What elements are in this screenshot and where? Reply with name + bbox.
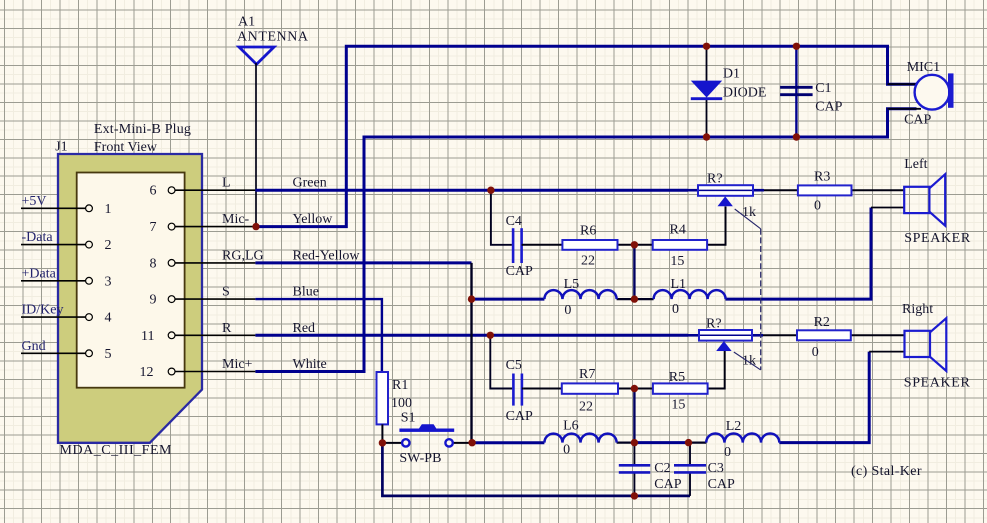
inductor L2 bbox=[706, 419, 779, 460]
wire White net: pin12 to bottom rail to MIC1 pin2 bbox=[255, 109, 916, 372]
pin 5 of J1 bbox=[21, 347, 112, 362]
wire L2 to right speaker lower pin bbox=[779, 352, 869, 443]
wire C3 bottom lead bbox=[689, 472, 691, 496]
wire SW row to L6 bbox=[472, 441, 544, 444]
svg-text:+5V: +5V bbox=[22, 194, 47, 209]
svg-text:100: 100 bbox=[391, 396, 412, 411]
svg-text:SPEAKER: SPEAKER bbox=[904, 376, 971, 391]
svg-text:R: R bbox=[222, 321, 232, 336]
svg-text:L2: L2 bbox=[726, 419, 742, 434]
svg-text:R3: R3 bbox=[814, 170, 830, 185]
svg-text:CAP: CAP bbox=[506, 409, 533, 424]
svg-text:2: 2 bbox=[105, 238, 112, 253]
svg-text:Red-Yellow: Red-Yellow bbox=[293, 248, 361, 263]
left speaker LS1 bbox=[904, 157, 971, 246]
svg-text:ANTENNA: ANTENNA bbox=[237, 30, 309, 45]
svg-text:White: White bbox=[293, 357, 327, 372]
svg-text:0: 0 bbox=[812, 345, 819, 360]
svg-text:C4: C4 bbox=[506, 214, 522, 229]
wire L6 to C2 junction bbox=[617, 442, 635, 444]
svg-text:Front View: Front View bbox=[94, 140, 158, 155]
resistor R7 bbox=[523, 367, 634, 415]
svg-text:C5: C5 bbox=[506, 358, 522, 373]
wire C2 junction to C3 junction bbox=[634, 441, 688, 444]
wire C2 top lead bbox=[633, 443, 635, 466]
junction C1 bottom bbox=[793, 133, 800, 140]
wire C2 bottom lead bbox=[633, 472, 635, 496]
svg-text:15: 15 bbox=[670, 254, 684, 269]
diode D1 bbox=[691, 46, 767, 137]
svg-text:0: 0 bbox=[814, 199, 821, 214]
pin 9 of J1 bbox=[150, 293, 256, 308]
svg-text:Yellow: Yellow bbox=[293, 212, 334, 227]
junction Green / C4 bbox=[487, 187, 494, 194]
junction C3 / L2 bbox=[685, 439, 692, 446]
pin 6 of J1 bbox=[150, 184, 256, 199]
svg-text:Mic-: Mic- bbox=[222, 212, 250, 227]
wire L1 to left speaker lower pin bbox=[726, 208, 872, 300]
svg-text:Red: Red bbox=[293, 321, 316, 336]
wire C3 junction to L2 bbox=[689, 442, 707, 444]
potentiometer R? (right channel) bbox=[688, 317, 797, 369]
microphone MIC1 bbox=[888, 60, 954, 128]
capacitor C3 bbox=[674, 461, 735, 492]
svg-text:9: 9 bbox=[150, 293, 157, 308]
switch S1 SW-PB bbox=[382, 411, 472, 467]
svg-text:R7: R7 bbox=[579, 367, 595, 382]
wire RG,LG net vertical down to switch row bbox=[470, 263, 472, 443]
svg-text:CAP: CAP bbox=[815, 100, 842, 115]
svg-text:C3: C3 bbox=[708, 461, 724, 476]
svg-text:8: 8 bbox=[150, 256, 157, 271]
svg-text:S: S bbox=[222, 285, 230, 300]
pin 4 of J1 bbox=[21, 311, 112, 326]
pin 12 of J1 bbox=[140, 365, 256, 380]
svg-text:0: 0 bbox=[724, 445, 731, 460]
svg-text:-Data: -Data bbox=[22, 230, 54, 245]
svg-text:Ext-Mini-B Plug: Ext-Mini-B Plug bbox=[94, 122, 191, 137]
junction R6/R4 node bbox=[631, 241, 638, 248]
svg-text:CAP: CAP bbox=[506, 264, 533, 279]
svg-text:S1: S1 bbox=[401, 411, 416, 426]
svg-text:22: 22 bbox=[579, 400, 593, 415]
svg-text:ID/Key: ID/Key bbox=[22, 303, 64, 318]
pin 2 of J1 bbox=[21, 238, 112, 253]
svg-text:R5: R5 bbox=[669, 370, 685, 385]
svg-text:0: 0 bbox=[672, 302, 679, 317]
svg-text:(c) Stal-Ker: (c) Stal-Ker bbox=[851, 464, 922, 479]
resistor R1 bbox=[377, 372, 413, 443]
wire C3 top lead bbox=[689, 443, 691, 466]
svg-text:5: 5 bbox=[105, 347, 112, 362]
svg-text:Left: Left bbox=[904, 157, 927, 172]
dashed gang link between potentiometers bbox=[734, 209, 761, 370]
svg-text:CAP: CAP bbox=[708, 477, 735, 492]
svg-text:J1: J1 bbox=[55, 140, 67, 155]
svg-text:CAP: CAP bbox=[654, 477, 681, 492]
svg-text:SPEAKER: SPEAKER bbox=[904, 231, 971, 246]
capacitor C2 bbox=[619, 461, 682, 492]
resistor R4 bbox=[634, 207, 725, 270]
wire node to L5 bbox=[472, 298, 545, 301]
svg-text:L5: L5 bbox=[564, 277, 580, 292]
junction R7/R5 node bbox=[631, 385, 638, 392]
junction antenna / Mic- wire bbox=[252, 223, 259, 230]
svg-text:Blue: Blue bbox=[293, 285, 319, 300]
svg-text:R4: R4 bbox=[670, 223, 686, 238]
svg-text:R?: R? bbox=[706, 317, 722, 332]
svg-text:R2: R2 bbox=[814, 315, 830, 330]
right speaker LS2 bbox=[902, 302, 970, 391]
wire C4 feed from Green net bbox=[491, 190, 512, 245]
svg-text:1: 1 bbox=[105, 202, 112, 217]
svg-text:Mic+: Mic+ bbox=[222, 357, 253, 372]
svg-text:1k: 1k bbox=[742, 354, 756, 369]
junction D1 bottom bbox=[703, 133, 710, 140]
svg-text:R6: R6 bbox=[580, 224, 596, 239]
svg-text:RG,LG: RG,LG bbox=[222, 248, 264, 263]
resistor R3 bbox=[798, 170, 904, 214]
svg-text:L: L bbox=[222, 176, 231, 191]
svg-text:0: 0 bbox=[563, 443, 570, 458]
svg-text:+Data: +Data bbox=[22, 266, 57, 281]
junction RG,LG / L5 row bbox=[468, 295, 475, 302]
antenna A1 bbox=[239, 47, 274, 64]
svg-text:4: 4 bbox=[105, 311, 112, 326]
potentiometer R? (left channel) bbox=[688, 172, 798, 221]
svg-text:L6: L6 bbox=[563, 419, 579, 434]
svg-text:3: 3 bbox=[105, 274, 112, 289]
wire L5 to L1 bbox=[617, 298, 654, 300]
svg-text:SW-PB: SW-PB bbox=[399, 451, 441, 466]
svg-text:D1: D1 bbox=[723, 67, 740, 82]
svg-text:MIC1: MIC1 bbox=[907, 60, 940, 75]
junction D1 top bbox=[703, 43, 710, 50]
inductor L6 bbox=[544, 419, 616, 458]
pin 11 of J1 bbox=[141, 329, 255, 344]
junction L6 / C2 bbox=[631, 439, 638, 446]
antenna A1 pin bbox=[255, 63, 257, 227]
svg-text:Right: Right bbox=[902, 302, 933, 317]
wire Red net: pin11 to pot R? left bbox=[255, 334, 688, 337]
svg-text:Gnd: Gnd bbox=[22, 339, 46, 354]
svg-text:1k: 1k bbox=[742, 205, 756, 220]
svg-text:C2: C2 bbox=[654, 461, 670, 476]
pin 1 of J1 bbox=[21, 202, 112, 217]
capacitor C4 bbox=[506, 214, 533, 279]
svg-text:C1: C1 bbox=[815, 81, 831, 96]
junction C1 top bbox=[793, 43, 800, 50]
wire Green net: pin6 to pot R? left bbox=[255, 189, 688, 192]
wire RG,LG net horizontal bbox=[255, 261, 471, 264]
wire junction column R6/R4 to L5/L1 bbox=[633, 245, 635, 299]
junction L5/L1 node bbox=[631, 295, 638, 302]
wire bottom ground run bbox=[382, 443, 690, 496]
capacitor C1 bbox=[780, 46, 843, 137]
pin 8 of J1 bbox=[150, 256, 256, 271]
inductor L1 bbox=[654, 277, 726, 317]
connector J1 body (Ext-Mini-B plug) bbox=[58, 154, 202, 443]
svg-text:0: 0 bbox=[564, 303, 571, 318]
resistor R6 bbox=[523, 224, 634, 269]
svg-text:MDA_C_III_FEM: MDA_C_III_FEM bbox=[60, 443, 173, 458]
svg-text:22: 22 bbox=[581, 254, 595, 269]
svg-text:L1: L1 bbox=[671, 277, 687, 292]
pin 7 of J1 bbox=[150, 220, 256, 235]
svg-text:R1: R1 bbox=[392, 378, 408, 393]
junction SW-PB / RG,LG column bbox=[468, 439, 475, 446]
resistor R5 bbox=[634, 350, 724, 413]
svg-text:7: 7 bbox=[150, 220, 157, 235]
junction C2 bottom / ground run bbox=[631, 492, 638, 499]
wire junction column R7/R5 to L6 row bbox=[633, 389, 635, 443]
junction Red / C5 bbox=[487, 332, 494, 339]
svg-text:11: 11 bbox=[141, 329, 154, 344]
svg-text:DIODE: DIODE bbox=[723, 86, 767, 101]
wire S net: pin9 right then down to R1 bbox=[255, 299, 382, 372]
svg-text:15: 15 bbox=[671, 398, 685, 413]
resistor R2 bbox=[797, 315, 905, 360]
junction R1 / SW-PB / bottom bbox=[379, 439, 386, 446]
svg-text:6: 6 bbox=[150, 184, 157, 199]
wire C5 feed from Red net bbox=[490, 335, 512, 388]
svg-text:R?: R? bbox=[707, 172, 723, 187]
svg-text:CAP: CAP bbox=[904, 113, 931, 128]
pin 3 of J1 bbox=[21, 274, 112, 289]
svg-text:Green: Green bbox=[293, 176, 327, 191]
wire Yellow net: pin7 to top rail to MIC1 pin1 bbox=[255, 46, 916, 226]
capacitor C5 bbox=[506, 358, 533, 424]
svg-text:A1: A1 bbox=[238, 15, 255, 30]
svg-text:12: 12 bbox=[140, 365, 154, 380]
inductor L5 bbox=[544, 277, 616, 318]
